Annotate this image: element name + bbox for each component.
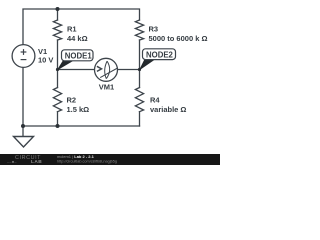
svg-text:5000 to 6000 k Ω: 5000 to 6000 k Ω	[149, 34, 208, 43]
svg-text:NODE1: NODE1	[65, 52, 93, 61]
svg-text:LAB: LAB	[31, 159, 42, 165]
svg-text:10 V: 10 V	[38, 56, 53, 65]
svg-text:R2: R2	[67, 96, 77, 105]
svg-text:VM1: VM1	[99, 83, 114, 92]
svg-text:R1: R1	[67, 25, 77, 34]
svg-text:R3: R3	[149, 25, 159, 34]
svg-text:NODE2: NODE2	[146, 51, 174, 60]
svg-text:R4: R4	[150, 96, 160, 105]
svg-text:variable Ω: variable Ω	[150, 105, 186, 114]
svg-text:––■–: ––■–	[7, 160, 17, 164]
svg-text:mclem1 | Lab 2 - 2.1: mclem1 | Lab 2 - 2.1	[57, 154, 95, 159]
svg-text:1.5 kΩ: 1.5 kΩ	[67, 105, 90, 114]
svg-text:44 kΩ: 44 kΩ	[67, 34, 88, 43]
svg-text:http://circuitlab.com/c8rfb8Ln: http://circuitlab.com/c8rfb8Lnagjb5g	[57, 160, 117, 164]
